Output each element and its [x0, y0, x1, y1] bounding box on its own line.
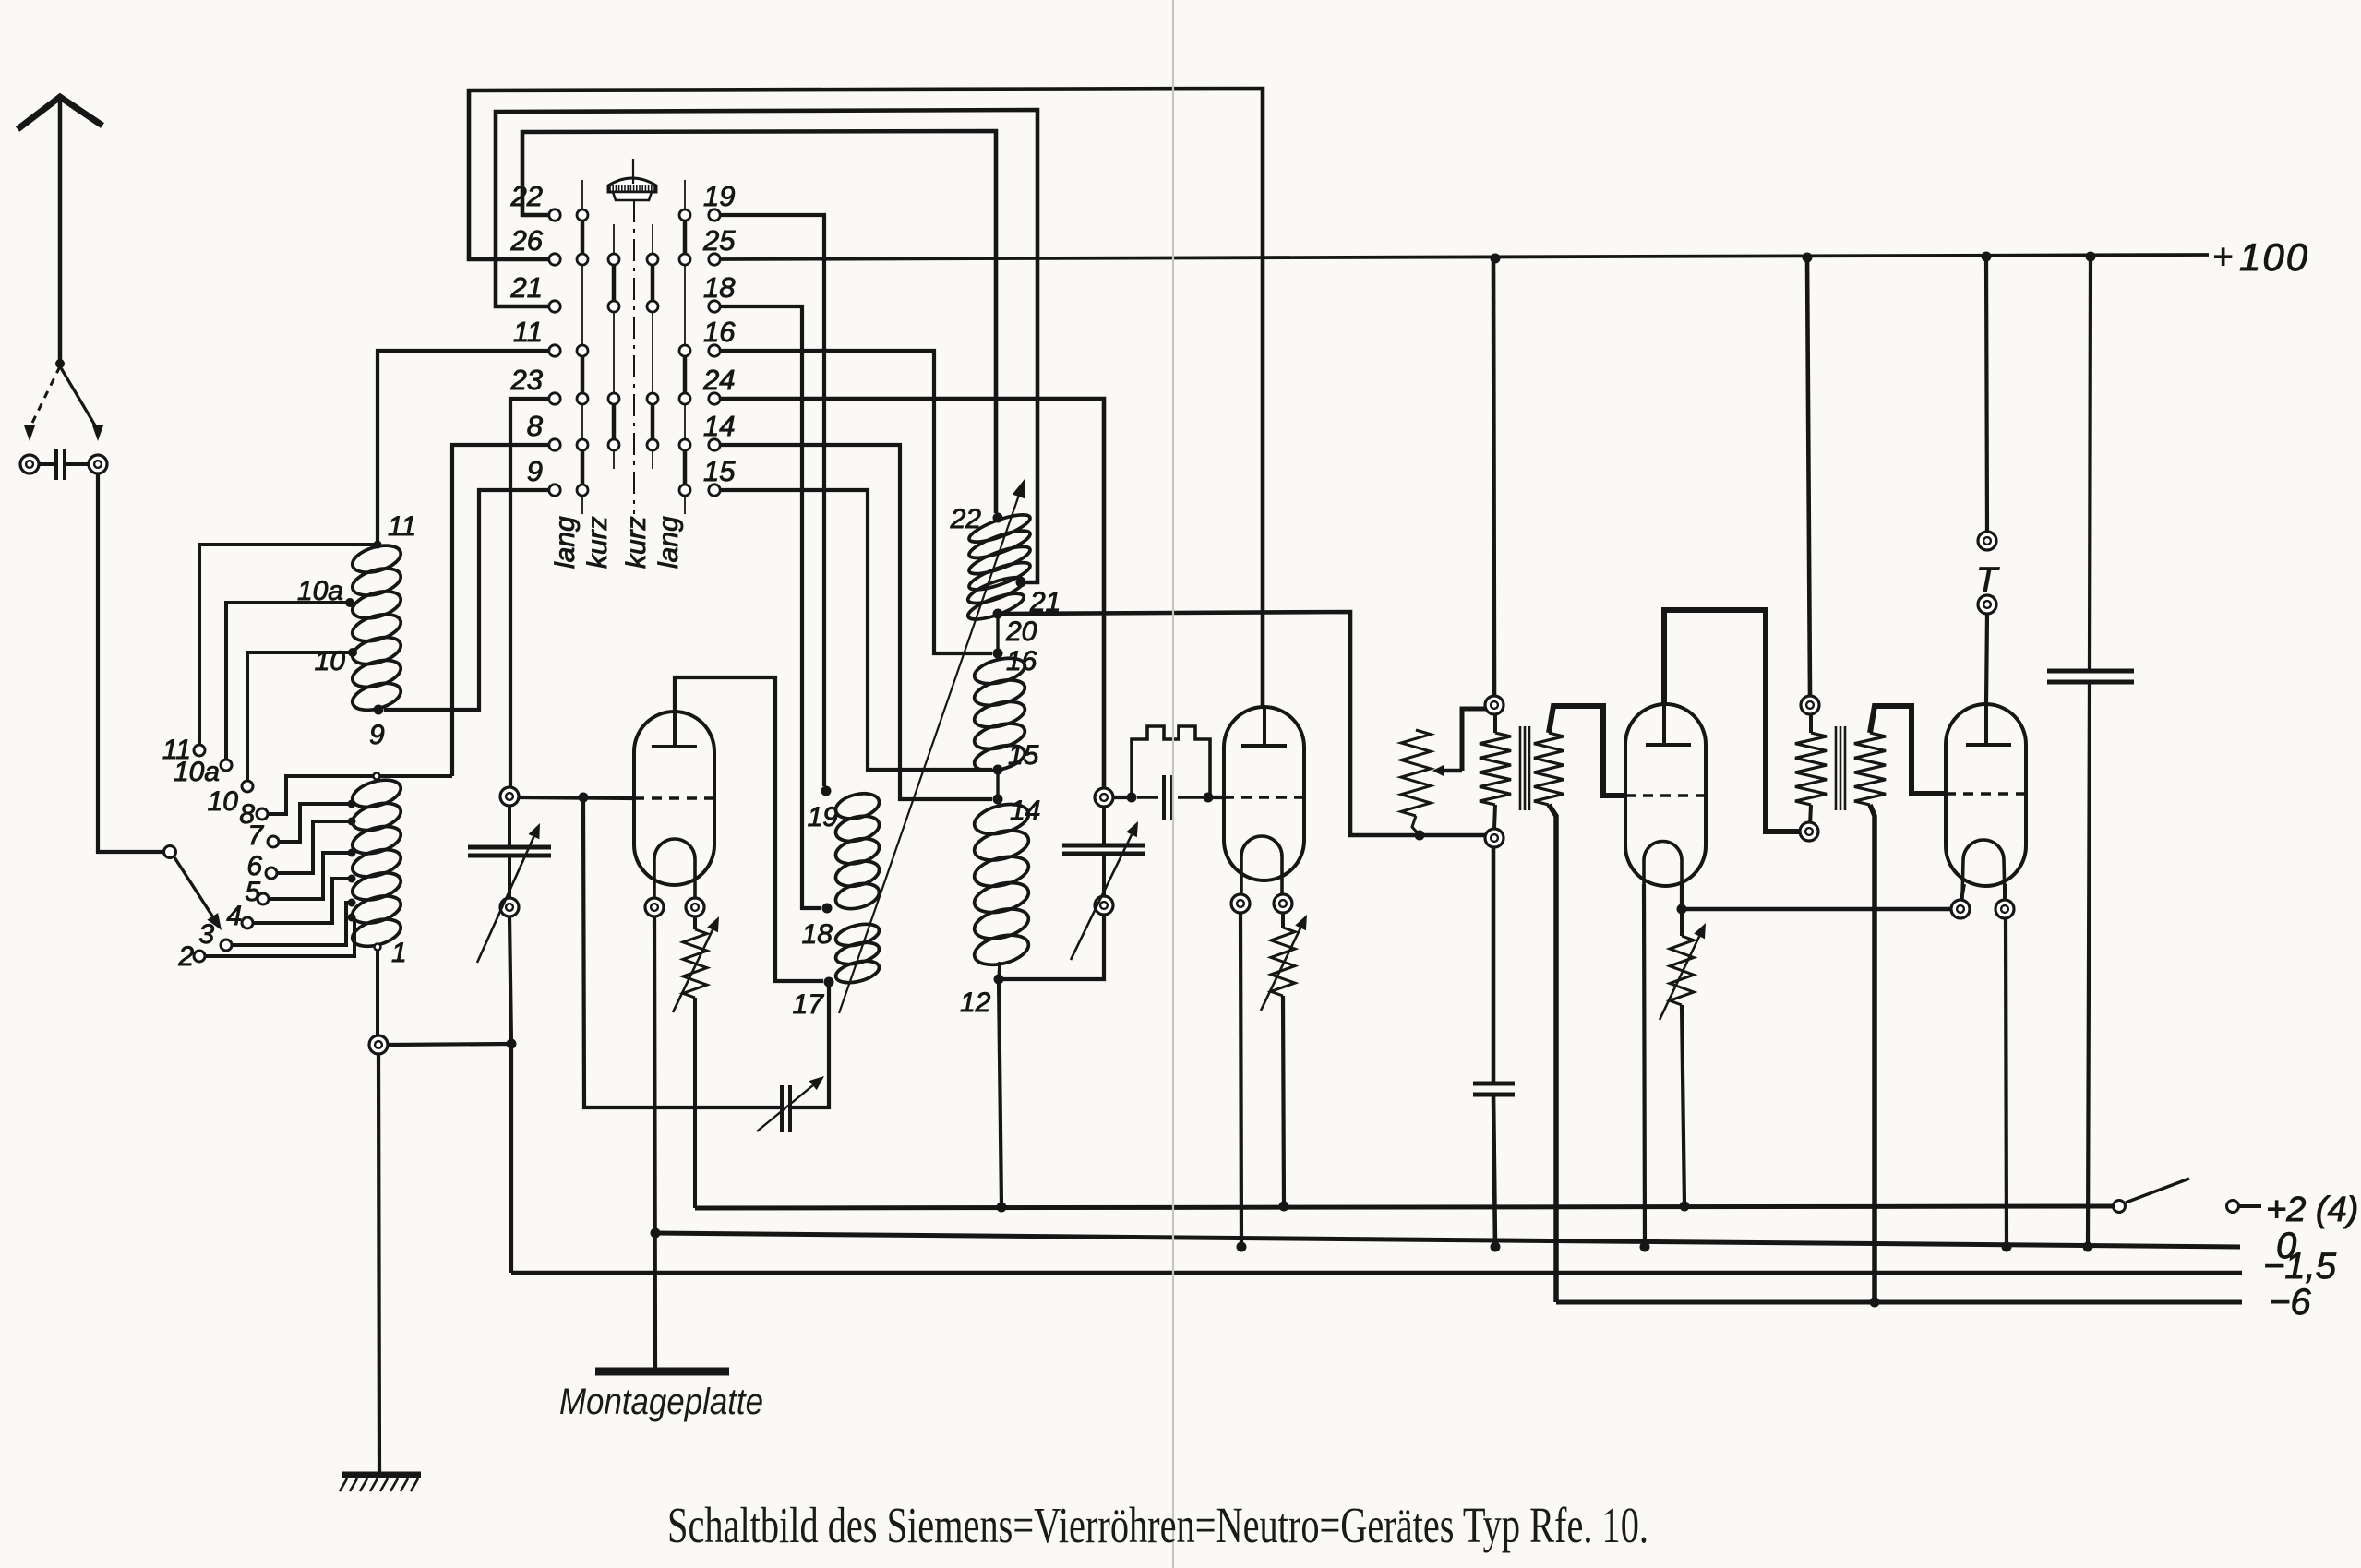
capacitor C2 (variable, stage 2 tuning) — [1062, 788, 1145, 960]
svg-text:9: 9 — [369, 720, 385, 750]
node 0/V2fil — [1237, 1242, 1247, 1252]
tube V3 envelope — [1625, 704, 1706, 886]
svg-text:15: 15 — [703, 455, 736, 487]
switch wafer column 4 — [679, 180, 690, 514]
label 5 contact — [245, 877, 260, 907]
antenna symbol — [18, 97, 102, 364]
label 11 contact — [162, 735, 191, 765]
coil L2 section 19-18 — [833, 789, 882, 913]
terminal T2 primary top — [1801, 696, 1819, 714]
svg-text:19: 19 — [808, 802, 839, 832]
rheostat R4 (V3 filament) — [1660, 909, 1706, 1206]
wire 15 to coil L3 tap 15 — [721, 490, 992, 770]
label +100 — [2212, 235, 2309, 279]
node +2/R4 — [1680, 1202, 1690, 1212]
wire L3 20-16 link — [996, 612, 999, 655]
wire 16 to coil L3 tap 16 — [721, 351, 992, 653]
label 0 — [2276, 1226, 2296, 1266]
rail +2(4) (filament +) — [695, 1206, 2114, 1208]
node tap2 — [348, 914, 356, 922]
switch wafer column 1 — [577, 180, 588, 514]
wire tap 10 to contact 10 — [247, 652, 353, 780]
label 11 coil top — [388, 511, 416, 542]
wire node12 down to +2(4) rail — [999, 979, 1001, 1207]
terminal V4 filament left — [1951, 900, 1970, 918]
wire switch 23 to tuning capacitor C1 — [510, 399, 548, 786]
tube V2 envelope — [1224, 707, 1304, 880]
tube V1 grid (dashed) — [634, 796, 714, 799]
node 0/C4 — [2083, 1242, 2093, 1252]
tube V2 grid (dashed) — [1224, 796, 1304, 798]
svg-text:1: 1 — [391, 938, 407, 968]
wire antenna dashed alternative lead — [24, 366, 60, 441]
label 11 switch-left — [513, 316, 543, 348]
switch terminal 25 right — [709, 254, 720, 265]
coil L3 section 14-12 — [971, 799, 1031, 970]
coil L3 section 22-21 — [966, 509, 1033, 595]
capacitor C-g (grid capacitor) — [1164, 775, 1172, 820]
label 22 switch-left — [510, 180, 543, 212]
node +2/R2 — [1279, 1202, 1289, 1212]
node 0/C3 — [1491, 1242, 1501, 1252]
svg-text:3: 3 — [198, 919, 214, 950]
svg-text:+2 (4): +2 (4) — [2266, 1191, 2358, 1229]
node R3 bottom — [1415, 831, 1425, 841]
switch S1 pivot — [164, 846, 176, 858]
wire 19 to coil L2 top — [721, 215, 824, 786]
wire V1 fil-left to Montageplatte — [654, 916, 655, 1370]
wire switch 9 to coil 9 — [384, 490, 548, 710]
node antenna junction — [55, 359, 65, 368]
node tap6 — [348, 818, 356, 826]
svg-text:10: 10 — [315, 646, 346, 676]
wire to V2 grid — [1208, 796, 1224, 799]
wire V1 plate top loop to node 17 — [675, 677, 823, 981]
wiper arrow R3 — [1432, 709, 1485, 777]
label lang (column 1) — [550, 516, 581, 569]
terminal antenna left — [20, 455, 39, 473]
tube V3 grid (dashed) — [1625, 794, 1706, 796]
wire T upper to +100 — [1986, 257, 1987, 532]
wire L3 15-14 link — [996, 770, 999, 799]
label +2(4) — [2266, 1191, 2358, 1229]
label 6 contact — [246, 851, 262, 881]
resistor R-gl (grid leak, meander) — [1132, 726, 1210, 797]
node +100/transformer T1 — [1491, 254, 1501, 264]
node 0-rail start — [651, 1228, 661, 1239]
terminal V1 filament right — [686, 898, 704, 916]
svg-text:9: 9 — [527, 455, 543, 487]
wire neutro: grid node to node 17 — [583, 802, 829, 1107]
node T2 secondary/-6 — [1870, 1298, 1880, 1308]
svg-text:22: 22 — [950, 504, 982, 534]
wire terminal to earth ground — [378, 1054, 379, 1473]
switch terminal 11 left — [549, 345, 560, 356]
svg-text:26: 26 — [510, 224, 544, 257]
label 8 switch-left — [527, 410, 544, 442]
label 15 switch-right — [703, 455, 736, 487]
switch terminal 24 right — [709, 393, 720, 404]
node 0/V4fil — [2002, 1242, 2012, 1252]
wire B: switch 21 to coil tap 21 — [496, 110, 1037, 582]
node +100/transformer T2 — [1803, 253, 1813, 263]
label 20 coil — [1005, 616, 1037, 647]
coil L3 section 21-20 — [965, 572, 1026, 624]
label 14 coil — [1010, 796, 1040, 826]
svg-text:100: 100 — [2239, 235, 2309, 279]
terminal V2 filament right — [1274, 894, 1292, 913]
wire T1 primary top to +100 — [1493, 258, 1494, 696]
label 10a contact — [174, 757, 220, 787]
contact 6 (primary tap selector) — [266, 868, 277, 879]
wire T2 secondary bottom to -6 rail — [1870, 805, 1875, 1302]
node tap 10 — [348, 648, 357, 657]
svg-text:23: 23 — [510, 364, 543, 396]
node +100/C4 — [2086, 252, 2096, 262]
label 16 coil — [1006, 646, 1037, 676]
tube V3 plate — [1646, 704, 1691, 745]
tube V1 plate — [652, 712, 697, 747]
terminal V4 filament right — [1995, 900, 2014, 918]
resistor R3 (volume potentiometer) — [1401, 730, 1431, 835]
node V3 filament junction — [1677, 904, 1687, 915]
svg-text:Montageplatte: Montageplatte — [559, 1382, 763, 1422]
contact 11 (primary tap selector) — [194, 745, 205, 756]
contact 8 (primary tap selector) — [257, 808, 268, 820]
switch terminal 9 left — [549, 485, 560, 496]
switch terminal 22 left — [549, 209, 560, 221]
wire coil-11-top to contact 11 — [199, 545, 378, 744]
caption — [667, 1497, 1648, 1553]
wire switch 11 to coil L1a top — [378, 351, 548, 543]
switch terminal 23 left — [549, 393, 560, 404]
label 9 coil bottom — [369, 720, 385, 750]
label 12 coil — [960, 987, 991, 1018]
label lang (column 4) — [653, 516, 684, 569]
terminal antenna right — [89, 455, 107, 473]
label kurz (column 3) — [621, 516, 652, 569]
wire contact 3 to tap — [233, 903, 352, 945]
node tap4 — [348, 875, 356, 883]
label 10a tap — [297, 576, 343, 606]
svg-text:kurz: kurz — [582, 516, 613, 569]
svg-text:14: 14 — [1010, 796, 1040, 826]
wire tap 10a to contact 10a — [226, 603, 350, 759]
node 0/V3fil — [1640, 1242, 1650, 1252]
wire grid V1 — [519, 797, 634, 798]
node 16 — [993, 649, 1003, 659]
node 12 — [994, 975, 1004, 985]
switch terminal 15 right — [709, 485, 720, 496]
svg-text:16: 16 — [703, 316, 736, 348]
wire C2 top to grid unit — [1113, 796, 1132, 799]
transformer T1 core — [1520, 726, 1529, 810]
svg-text:19: 19 — [703, 180, 735, 212]
label 17 coil — [793, 989, 825, 1020]
svg-text:18: 18 — [802, 919, 833, 950]
contact 3 (primary tap selector) — [221, 940, 232, 951]
tube V4 filament — [1962, 840, 2005, 899]
contact 10a (primary tap selector) — [221, 760, 232, 771]
switch terminal 18 right — [709, 301, 720, 312]
svg-text:+: + — [2212, 238, 2233, 277]
svg-text:lang: lang — [653, 516, 684, 569]
wire V3 fil-right — [1680, 884, 1684, 909]
label 21 switch-left — [510, 271, 543, 304]
label 21 coil — [1029, 587, 1061, 617]
node tap 10a — [345, 598, 354, 607]
capacitor C-ant (antenna series capacitor) — [40, 449, 88, 480]
svg-text:4: 4 — [226, 901, 242, 931]
node +100/T-terminal — [1982, 252, 1992, 262]
wire node12 to C2 bottom — [999, 915, 1104, 979]
svg-text:16: 16 — [1006, 646, 1037, 676]
label -6 — [2269, 1282, 2311, 1323]
terminal T2 primary bottom — [1800, 822, 1818, 841]
node 22 — [993, 513, 1003, 523]
switch wafer column 3 — [647, 224, 658, 469]
wire V4 fil-right to 0 rail — [2005, 884, 2007, 1247]
tube V4 grid (dashed) — [1946, 792, 2026, 795]
svg-text:lang: lang — [550, 516, 581, 569]
wire coil L3 bottom to node 12 — [999, 962, 1000, 979]
node tap3 — [348, 899, 356, 907]
tube V3 filament — [1644, 842, 1682, 887]
node coil L1b top — [374, 773, 380, 780]
label 18 switch-right — [703, 271, 736, 304]
node grid-leak left — [1127, 793, 1137, 803]
node tap5 — [348, 849, 356, 857]
node coil terminal 1 — [375, 944, 381, 951]
terminal T upper — [1978, 532, 1996, 550]
switch terminal 14 right — [709, 439, 720, 450]
terminal V2 filament left — [1231, 894, 1250, 913]
capacitor C3 (anode bypass) — [1473, 847, 1515, 1247]
svg-text:5: 5 — [245, 877, 260, 907]
label 15 coil — [1008, 740, 1039, 771]
wire contact 2 to tap — [206, 919, 354, 956]
svg-text:18: 18 — [703, 271, 736, 304]
node +2/R1? coil12 — [997, 1203, 1007, 1213]
coil L3 section 16-15 — [972, 653, 1027, 775]
wire contact 4 to tap — [254, 879, 352, 923]
contact 7 (primary tap selector) — [268, 836, 279, 847]
label 19 switch-right — [703, 180, 735, 212]
node 19 — [821, 786, 832, 796]
tube V1 filament — [654, 839, 695, 897]
svg-text:−1,5: −1,5 — [2263, 1246, 2337, 1287]
capacitor C1 (tuning, variable) — [468, 787, 551, 963]
node 14 — [993, 795, 1003, 805]
transformer T2 core — [1836, 726, 1845, 810]
contact 5 (primary tap selector) — [258, 893, 269, 904]
transformer T2 primary winding — [1795, 714, 1827, 825]
terminal T1 primary bottom — [1485, 829, 1504, 847]
terminal V1 filament left — [645, 898, 664, 916]
svg-text:T: T — [1976, 561, 2000, 600]
svg-text:8: 8 — [527, 410, 544, 442]
label 3 contact — [198, 919, 214, 950]
switch terminal 19 right — [709, 209, 720, 221]
node grid-leak right — [1204, 793, 1214, 803]
wire V4 fil-left stub — [1961, 884, 1964, 900]
rail +100 (from switch 25) — [721, 255, 2209, 259]
rail 0 — [655, 1233, 2240, 1247]
contact 4 (primary tap selector) — [242, 917, 253, 928]
node 18 — [822, 904, 833, 914]
transformer T2 secondary winding — [1854, 733, 1886, 805]
svg-text:22: 22 — [510, 180, 543, 212]
switch S1 arm — [174, 857, 222, 930]
node coil 11 top — [374, 541, 382, 549]
label 10 contact — [208, 786, 239, 817]
wire C1 bottom down to -1,5 — [509, 916, 511, 1273]
coil L1a (antenna primary 11-10a-10-9) — [349, 541, 403, 715]
node 17 — [824, 977, 834, 987]
switch axis (dash-dot) — [633, 200, 635, 514]
label 8 contact — [239, 799, 255, 830]
wire A: switch 26 to V2 plate — [469, 89, 1263, 707]
node tap7 — [348, 800, 356, 808]
knob (wave-change switch) — [608, 159, 656, 200]
coil L1b (antenna secondary taps 8..1) — [349, 775, 403, 952]
wire T2 secondary top to V4 grid — [1870, 706, 1946, 794]
label 1 coil bottom — [391, 938, 407, 968]
svg-text:11: 11 — [513, 316, 543, 348]
label Montageplatte — [559, 1382, 763, 1422]
label 10 tap — [315, 646, 346, 676]
svg-text:kurz: kurz — [621, 516, 652, 569]
label -1,5 — [2263, 1246, 2337, 1287]
ground symbol (earth) — [340, 1475, 421, 1491]
switch terminal 26 left — [549, 254, 560, 265]
wire contact 8 to coil L1b top — [269, 776, 452, 814]
wire 14 to coil L3 tap 14 — [721, 445, 992, 799]
label kurz (column 2) — [582, 516, 613, 569]
tube V2 filament — [1241, 836, 1282, 893]
wire V4 plate to T terminal — [1986, 614, 1987, 704]
label T (Telefon) — [1976, 561, 2000, 600]
label 16 switch-right — [703, 316, 736, 348]
wire grid unit inner — [1137, 796, 1204, 798]
coil L2 section 18-17 — [833, 920, 881, 987]
node junction at x554 — [507, 1039, 517, 1049]
node 15 — [993, 765, 1003, 775]
svg-text:10: 10 — [208, 786, 239, 817]
wire V3 plate loop to T2 primary bottom — [1664, 610, 1800, 832]
wire antenna lead to coupling capacitor — [60, 366, 103, 441]
label 19 coil — [808, 802, 839, 832]
wire contact 7 to tap — [280, 804, 352, 842]
label 23 switch-left — [510, 364, 543, 396]
svg-text:25: 25 — [702, 224, 736, 257]
rail -6 (grid bias) — [1556, 1300, 2242, 1305]
svg-text:24: 24 — [702, 364, 735, 396]
switch terminal 8 left — [549, 439, 560, 450]
svg-text:−6: −6 — [2269, 1282, 2311, 1323]
node coil 9 bottom — [374, 705, 384, 715]
svg-text:11: 11 — [388, 511, 416, 542]
wire contact 6 to tap — [278, 821, 352, 873]
node 21 — [1016, 578, 1026, 588]
node grid V1 / neutro — [579, 793, 589, 803]
wire filament bus V3-V4 — [1682, 907, 1954, 912]
svg-text:12: 12 — [960, 987, 991, 1018]
wire T1 secondary bottom to -6 rail — [1549, 805, 1556, 1302]
label 18 coil — [802, 919, 833, 950]
svg-text:2: 2 — [177, 941, 194, 972]
rheostat R1 (filament) — [673, 916, 719, 1208]
rheostat R2 (filament) — [1261, 913, 1307, 1206]
Montageplatte plate bar — [595, 1368, 729, 1376]
wire 18 to coil L2 tap 18 — [721, 306, 821, 908]
tube V2 plate — [1241, 707, 1287, 746]
wire 20 to transformer T1 primary bottom — [998, 612, 1486, 835]
label 14 switch-right — [703, 410, 735, 442]
contact 2 (primary tap selector) — [194, 951, 205, 962]
svg-text:7: 7 — [247, 820, 264, 851]
wire coil terminal 1 down — [376, 950, 379, 1035]
terminal T1 primary top — [1485, 696, 1504, 714]
tube V1 envelope — [634, 712, 714, 885]
wire T1 secondary top to V3 grid — [1549, 706, 1625, 796]
svg-text:15: 15 — [1008, 740, 1039, 771]
wire contact 5 to tap — [270, 853, 352, 899]
node 20 — [993, 609, 1003, 619]
svg-text:21: 21 — [510, 271, 543, 304]
switch wafer column 2 — [608, 224, 619, 469]
transformer T1 primary winding — [1480, 714, 1511, 829]
wire antenna down to band switch — [98, 474, 163, 852]
terminal T lower — [1978, 595, 1996, 614]
wire T2 primary top to +100 — [1807, 257, 1810, 696]
svg-text:14: 14 — [703, 410, 735, 442]
svg-text:17: 17 — [793, 989, 825, 1020]
label 7 contact — [247, 820, 264, 851]
wire 24 to C2 top — [721, 399, 1104, 787]
label 25 switch-right — [702, 224, 736, 257]
label 24 switch-right — [702, 364, 735, 396]
svg-text:Schaltbild des Siemens=Vierröh: Schaltbild des Siemens=Vierröhren=Neutro… — [667, 1497, 1648, 1553]
wire V3 fil-left to 0 rail — [1644, 884, 1645, 1247]
svg-text:10a: 10a — [174, 757, 220, 787]
page fold line — [1172, 0, 1174, 1568]
wire switch 8 down to coil L1b top — [452, 445, 548, 776]
label 9 switch-left — [527, 455, 543, 487]
svg-text:20: 20 — [1005, 616, 1037, 647]
wire node to tuning-cap column — [388, 1044, 511, 1045]
tube V4 plate — [1966, 704, 2011, 745]
variometer arrow (ganged) — [839, 479, 1025, 1013]
contact 10 (primary tap selector) — [242, 781, 253, 792]
rail -1,5 (grid bias) — [511, 1271, 2242, 1275]
tube V4 envelope — [1946, 704, 2026, 886]
transformer T1 secondary winding — [1534, 733, 1564, 805]
terminal chassis ⊚ below coil — [369, 1035, 388, 1054]
label 2 contact — [177, 941, 194, 972]
wire C: switch 22 to coil 22 — [522, 131, 996, 513]
switch terminal 21 left — [549, 301, 560, 312]
wire V2 fil-left to 0 rail — [1240, 913, 1241, 1247]
label 26 switch-left — [510, 224, 544, 257]
label 4 contact — [226, 901, 242, 931]
capacitor C-N (neutralizing, trimmer) — [757, 1076, 824, 1132]
switch filament on/off — [2114, 1179, 2262, 1213]
label 22 coil — [950, 504, 982, 534]
capacitor C4 (telephone bypass) — [2047, 257, 2134, 1247]
switch terminal 16 right — [709, 345, 720, 356]
